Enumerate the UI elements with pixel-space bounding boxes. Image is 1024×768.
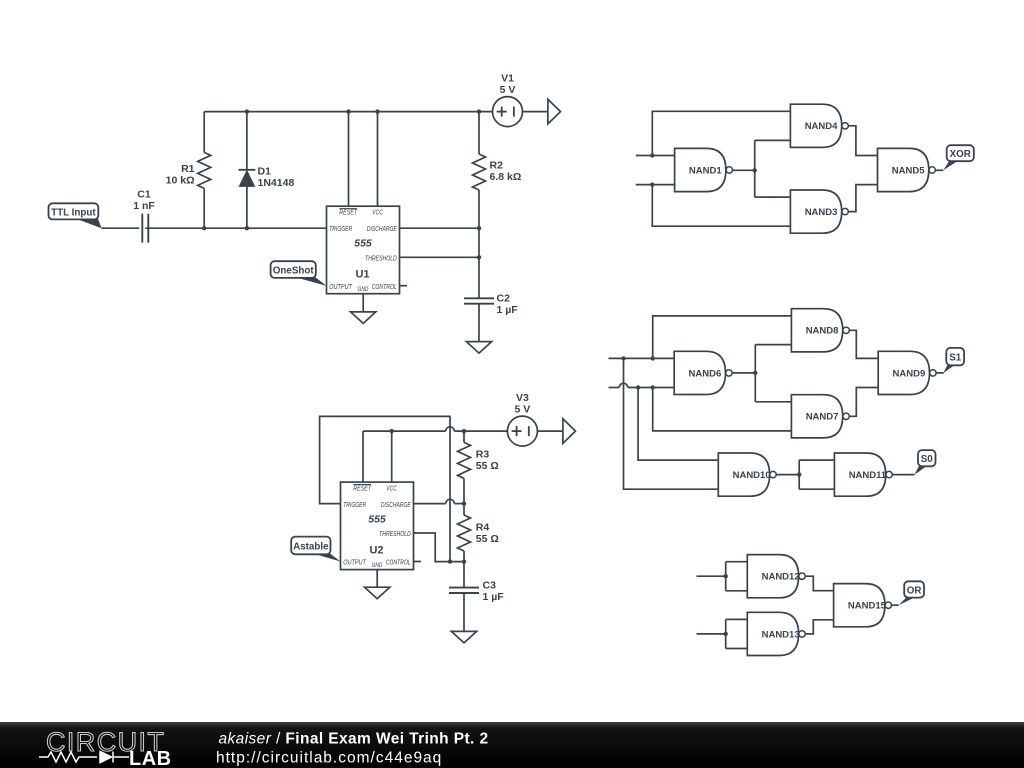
node B tap	[650, 182, 654, 186]
output port V1 out	[548, 99, 561, 124]
ground C2 gnd	[466, 342, 491, 354]
wire V3 rail left	[363, 430, 446, 432]
wire to NAND13 in2	[726, 648, 748, 650]
node discharge R2	[477, 226, 481, 230]
capacitor C2 1 µF	[464, 293, 518, 317]
svg-text:5 V: 5 V	[500, 84, 516, 96]
wire D rail to NAND7	[653, 388, 792, 431]
svg-text:55 Ω: 55 Ω	[476, 533, 499, 545]
wire RESET U1 riser	[348, 112, 350, 207]
NAND gate NAND12	[747, 555, 805, 598]
wire input C stub	[609, 357, 675, 359]
svg-text:GND: GND	[372, 562, 383, 569]
node trigger-threshold	[448, 559, 452, 563]
wire hop D over A-tap	[619, 383, 628, 387]
wire top rail V1	[204, 111, 492, 113]
wire CONTROL U1 stub	[400, 285, 408, 287]
NAND gate NAND1	[675, 148, 733, 191]
ground U2 gnd	[365, 587, 390, 599]
NAND gate NAND10	[718, 453, 776, 496]
node C tap2	[651, 356, 655, 360]
wire C3 to ground	[463, 593, 465, 631]
node threshold C3	[462, 559, 466, 563]
wire R2 column	[478, 112, 480, 154]
node D tap2	[651, 385, 655, 389]
wire to NAND12 in1	[726, 561, 748, 563]
wire DISCHARGE U1 to R2 node	[400, 227, 480, 229]
wire NAND6 fanout	[754, 345, 756, 402]
svg-text:S0: S0	[921, 454, 934, 465]
flag TTL Input	[49, 203, 102, 228]
wire to NAND11 in2	[799, 488, 834, 490]
svg-text:NAND1: NAND1	[689, 165, 722, 176]
wire input F stub	[697, 633, 726, 635]
node NAND1 out node	[753, 168, 757, 172]
wire R1 bottom	[203, 188, 205, 228]
CircuitLab logo squiggle: wire, resistor, diode	[39, 752, 129, 763]
capacitor C1 1 nF	[133, 189, 155, 243]
svg-text:CONTROL: CONTROL	[372, 282, 397, 291]
capacitor C3 1 µF	[449, 579, 504, 603]
svg-text:NAND9: NAND9	[893, 368, 926, 379]
NAND gate NAND11	[834, 453, 892, 496]
svg-text:C3: C3	[483, 579, 497, 591]
svg-text:TTL Input: TTL Input	[51, 207, 96, 218]
wire input B stub	[636, 184, 675, 186]
wire to NAND7 in1	[755, 401, 791, 403]
node rail VCC U2	[390, 429, 394, 433]
wire E split	[725, 562, 727, 591]
wire R3 bottom	[463, 478, 465, 503]
svg-text:NAND8: NAND8	[806, 326, 839, 337]
svg-text:R1: R1	[181, 163, 195, 175]
wire NAND7 out	[849, 388, 878, 417]
svg-text:U1: U1	[355, 269, 369, 281]
NAND gate NAND5	[878, 148, 936, 191]
node NAND10 out node	[797, 472, 801, 476]
svg-text:6.8 kΩ: 6.8 kΩ	[490, 171, 522, 183]
wire input E stub	[697, 575, 726, 577]
svg-text:C1: C1	[137, 189, 151, 201]
svg-text:TRIGGER: TRIGGER	[343, 500, 366, 509]
svg-text:OUTPUT: OUTPUT	[329, 282, 352, 291]
svg-text:LAB: LAB	[129, 748, 172, 768]
svg-text:RESET: RESET	[339, 208, 357, 217]
svg-text:NAND6: NAND6	[689, 368, 722, 379]
wire NAND3 out	[848, 185, 877, 212]
node top R2	[477, 109, 481, 113]
svg-text:DISCHARGE: DISCHARGE	[381, 500, 411, 509]
svg-text:THRESHOLD: THRESHOLD	[379, 529, 411, 538]
svg-text:C2: C2	[497, 293, 511, 305]
svg-text:NAND3: NAND3	[805, 207, 838, 218]
NAND gate NAND6	[674, 351, 732, 394]
wire A rail to NAND4	[652, 111, 790, 155]
node A tap	[650, 153, 654, 157]
wire C rail to NAND8	[653, 316, 792, 359]
svg-text:NAND10: NAND10	[733, 470, 771, 481]
svg-text:OUTPUT: OUTPUT	[343, 558, 366, 567]
op-amp/timer 555 U2	[341, 482, 414, 569]
node trig R1	[202, 226, 206, 230]
wire GND U2 stub	[376, 570, 378, 588]
wire C1 to TRIGGER U1	[145, 227, 326, 229]
op-amp/timer 555 U1	[327, 206, 400, 294]
node trig D1	[245, 226, 249, 230]
resistor R4 55 Ω	[458, 515, 499, 551]
wire R4 bottom	[463, 551, 465, 588]
node top RESET	[346, 109, 350, 113]
svg-text:D1: D1	[258, 166, 272, 178]
wire hop discharge over trigger loop	[446, 499, 455, 503]
svg-text:1 nF: 1 nF	[133, 200, 155, 212]
flag Astable	[291, 537, 340, 562]
svg-text:OneShot: OneShot	[273, 265, 315, 276]
node discharge R3R4	[462, 501, 466, 505]
wire NAND1 fanout	[754, 140, 756, 197]
svg-text:GND: GND	[358, 286, 369, 293]
NAND gate NAND4	[790, 104, 848, 147]
svg-text:1 µF: 1 µF	[483, 591, 505, 603]
svg-text:OR: OR	[907, 585, 922, 596]
svg-text:DISCHARGE: DISCHARGE	[367, 224, 397, 233]
wire GND U1 stub	[362, 294, 364, 312]
wire trigger loop	[320, 416, 450, 561]
svg-text:55 Ω: 55 Ω	[476, 460, 499, 472]
NAND gate NAND3	[790, 190, 848, 233]
svg-text:RESET: RESET	[353, 483, 371, 492]
wire RESET U2 riser	[362, 431, 364, 482]
wire V3 to port	[537, 430, 563, 432]
svg-text:XOR: XOR	[950, 149, 971, 160]
svg-text:CONTROL: CONTROL	[386, 558, 411, 567]
wire F split	[725, 619, 727, 648]
wire D down to NAND10	[638, 388, 718, 461]
svg-text:V3: V3	[516, 392, 529, 404]
NAND gate NAND15	[834, 584, 892, 627]
diode D1 1N4148	[238, 166, 294, 190]
voltage source V1 5 V	[493, 72, 523, 126]
node D tap1	[636, 385, 640, 389]
svg-text:R4: R4	[476, 522, 490, 534]
wire NAND5 out	[935, 169, 943, 171]
wire V3 rail right	[454, 430, 507, 432]
svg-text:http://circuitlab.com/c44e9aq: http://circuitlab.com/c44e9aq	[216, 750, 442, 767]
svg-text:1N4148: 1N4148	[258, 177, 295, 189]
svg-text:1 µF: 1 µF	[497, 304, 519, 316]
output port V3 out	[563, 419, 576, 444]
wire NAND10 fanout	[798, 460, 800, 489]
flag OR	[899, 581, 924, 605]
wire to NAND11 in1	[799, 459, 834, 461]
svg-text:555: 555	[354, 238, 372, 250]
wire to NAND13 in1	[726, 618, 748, 620]
wire to NAND8 in2	[755, 344, 791, 346]
wire to NAND4 in2	[755, 139, 791, 141]
node E tap	[724, 574, 728, 578]
svg-text:R2: R2	[490, 160, 504, 172]
wire V1 to port	[523, 111, 548, 113]
node F tap	[724, 632, 728, 636]
wire discharge U2 right	[454, 503, 464, 505]
svg-text:NAND12: NAND12	[762, 572, 800, 583]
wire input A stub	[636, 155, 675, 157]
svg-text:10 kΩ: 10 kΩ	[166, 175, 195, 187]
svg-text:VCC: VCC	[386, 483, 397, 492]
wire input D stub right	[628, 387, 674, 389]
flag S0	[915, 450, 936, 475]
svg-text:VCC: VCC	[372, 208, 383, 217]
wire B rail to NAND3	[652, 185, 790, 227]
node threshold C2	[477, 255, 481, 259]
wire discharge U2 left	[414, 503, 446, 505]
wire R3 top	[463, 431, 465, 442]
wire CONTROL U2 stub	[414, 561, 422, 563]
wire NAND6 out	[732, 372, 755, 374]
svg-text:NAND5: NAND5	[892, 165, 925, 176]
svg-text:THRESHOLD: THRESHOLD	[365, 253, 397, 262]
wire NAND12 out	[805, 576, 833, 591]
wire R1 top drop	[203, 112, 205, 153]
node rail R3	[462, 429, 466, 433]
svg-text:NAND11: NAND11	[849, 470, 887, 481]
flag XOR	[943, 145, 974, 170]
wire to NAND12 in2	[726, 590, 748, 592]
ground U1 gnd	[351, 312, 376, 324]
wire input D stub left	[609, 387, 620, 389]
svg-text:555: 555	[368, 514, 386, 526]
wire NAND1 out	[733, 169, 755, 171]
svg-text:U2: U2	[369, 545, 383, 557]
wire C2 to ground	[478, 304, 480, 342]
wire NAND11 out	[892, 474, 914, 476]
node C tap1	[621, 356, 625, 360]
wire NAND4 out	[848, 126, 877, 156]
svg-text:NAND7: NAND7	[806, 412, 839, 423]
wire NAND9 out	[936, 372, 944, 374]
svg-text:NAND13: NAND13	[762, 629, 800, 640]
NAND gate NAND8	[791, 309, 849, 352]
wire to NAND3 in1	[755, 196, 791, 198]
wire input to C1	[102, 227, 140, 229]
svg-text:TRIGGER: TRIGGER	[329, 224, 352, 233]
svg-text:Astable: Astable	[293, 541, 329, 552]
wire NAND8 out	[849, 330, 878, 358]
wire R2 to discharge node	[478, 190, 480, 298]
wire NAND15 out	[892, 604, 899, 606]
svg-text:akaiser / Final Exam Wei Trinh: akaiser / Final Exam Wei Trinh Pt. 2	[219, 731, 489, 748]
NAND gate NAND13	[747, 612, 805, 655]
NAND gate NAND9	[878, 351, 936, 394]
svg-text:NAND15: NAND15	[848, 601, 887, 612]
voltage source V3 5 V	[507, 392, 537, 446]
svg-text:R3: R3	[476, 448, 490, 460]
wire D1 bottom	[246, 186, 248, 228]
wire NAND13 out	[805, 620, 833, 634]
node top D1	[245, 109, 249, 113]
wire hop V3 rail over trigger loop	[446, 427, 455, 431]
flag S1	[943, 348, 964, 373]
resistor R1 10 kΩ	[166, 152, 211, 188]
wire R4 top	[463, 504, 465, 515]
wire C down to NAND10	[624, 358, 719, 489]
svg-text:V1: V1	[501, 72, 514, 84]
ground C3 gnd	[451, 631, 476, 643]
wire NAND10 out	[776, 474, 799, 476]
NAND gate NAND7	[791, 395, 849, 438]
svg-text:NAND4: NAND4	[805, 121, 838, 132]
node top VCC	[375, 109, 379, 113]
wire threshold U2	[414, 533, 465, 562]
svg-text:S1: S1	[949, 353, 962, 364]
flag OneShot	[271, 261, 327, 286]
resistor R3 55 Ω	[458, 442, 499, 478]
resistor R2 6.8 kΩ	[473, 154, 522, 190]
wire VCC U2 riser	[391, 431, 393, 482]
wire D1 top	[246, 112, 248, 170]
wire VCC U1 riser	[377, 112, 379, 207]
svg-text:5 V: 5 V	[515, 403, 531, 415]
wire THRESHOLD U1 to C2 node	[400, 256, 480, 258]
node NAND6 out node	[753, 371, 757, 375]
